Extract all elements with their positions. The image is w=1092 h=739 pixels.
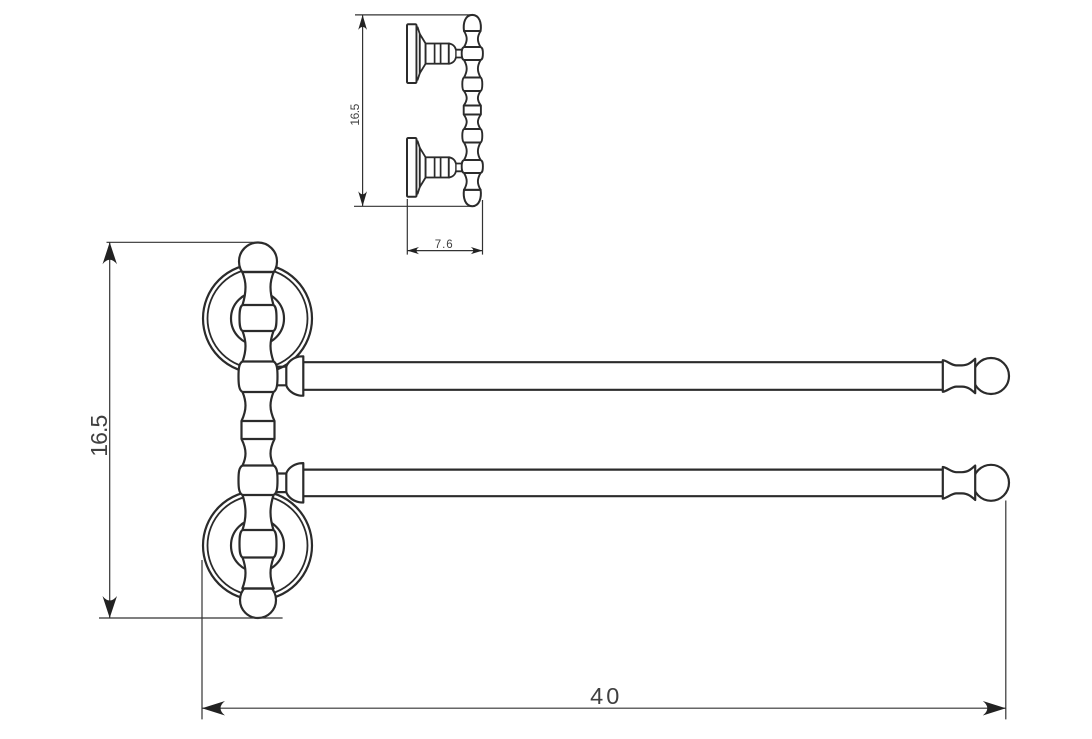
front dim 40 line	[202, 707, 1006, 709]
wall mount bottom (side view) escutcheon cone	[420, 148, 426, 187]
bar 1 mount bell	[286, 356, 303, 395]
post top ball	[239, 243, 277, 281]
side dim 7.6 arrows	[407, 247, 419, 254]
wall mount bottom (side view) conical washer	[417, 141, 420, 194]
wall mount top (side view) wall plate	[407, 24, 417, 83]
wall flange top boss	[231, 292, 284, 345]
wall mount top (side view) stem with ring grooves	[426, 44, 449, 64]
side dim 16.5 bottom extension line	[354, 205, 471, 207]
side dim 16.5 arrows	[358, 15, 367, 30]
post body (side view)	[462, 31, 483, 190]
wall flange bottom outer ring	[203, 491, 312, 600]
front dim 16.5 line	[109, 242, 111, 618]
post bead joint lines (front)	[242, 272, 275, 589]
side dim 16.5 top extension line	[355, 14, 472, 16]
front dim 16.5 bottom extension line	[99, 617, 283, 619]
wall mount bottom (side view) dome cap and throat	[449, 157, 462, 177]
svg-text:40: 40	[590, 683, 622, 709]
side dim 7.6 right extension line	[482, 200, 484, 255]
wall mount top (side view) dome cap and throat	[449, 44, 462, 64]
wall mount bottom (side view) wall plate	[407, 138, 417, 197]
wall flange bottom boss	[231, 519, 284, 572]
front dim 16.5 top extension line	[107, 241, 256, 243]
side post top ball	[464, 15, 481, 31]
post bead joint lines (side)	[464, 31, 481, 190]
bar 2 mount bell	[286, 463, 303, 502]
front dim 40 left extension line	[201, 560, 203, 719]
wall mount bottom (side view) stem with ring grooves	[426, 157, 449, 177]
front dim 40 arrows	[202, 701, 225, 716]
bar 2 end ball finial	[973, 465, 1009, 501]
side post bottom ball	[464, 190, 481, 206]
wall flange top outer ring	[203, 264, 312, 373]
post bottom ball	[240, 582, 276, 618]
svg-text:7.6: 7.6	[435, 239, 454, 251]
side dim 7.6 left extension line	[406, 199, 408, 255]
towel bar 2	[303, 470, 942, 497]
svg-text:16.5: 16.5	[348, 103, 362, 125]
side dim 7.6 line	[407, 250, 482, 252]
post body (front view)	[239, 272, 278, 589]
svg-text:16.5: 16.5	[86, 416, 112, 457]
wall mount top (side view) escutcheon cone	[420, 34, 426, 73]
side dim 16.5 line	[362, 15, 364, 206]
wall mount top (side view) conical washer	[417, 27, 420, 80]
bar 1 end ball finial	[973, 358, 1009, 394]
towel bar 1	[303, 362, 942, 390]
front dim 40 right extension line	[1005, 501, 1007, 720]
front dim 16.5 arrows	[103, 242, 118, 264]
